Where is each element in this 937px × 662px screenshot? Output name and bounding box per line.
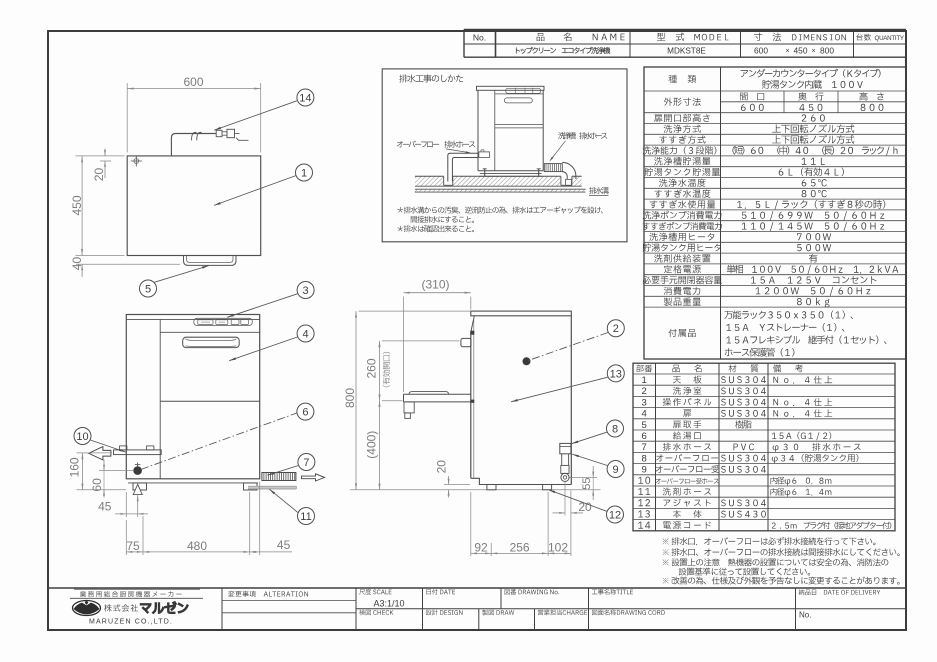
svg-text:20: 20 (92, 168, 106, 182)
svg-text:5: 5 (145, 283, 151, 295)
svg-text:102: 102 (548, 540, 568, 554)
svg-text:1: 1 (301, 167, 307, 179)
svg-text:256: 256 (510, 540, 530, 554)
tank dot (2) (523, 358, 530, 365)
svg-text:MDKST8E: MDKST8E (667, 46, 706, 55)
svg-text:9: 9 (642, 465, 647, 476)
svg-text:92: 92 (474, 540, 488, 554)
svg-text:3: 3 (303, 285, 309, 297)
detergent hose on floor (248, 486, 296, 489)
svg-text:14: 14 (299, 92, 311, 104)
maruzen company logo block (74, 588, 200, 590)
balloon 11 (269, 489, 298, 512)
dim 260 / (400) (382, 340, 460, 342)
svg-text:5: 5 (642, 420, 647, 431)
svg-text:10: 10 (76, 431, 88, 443)
balloon 7 (268, 466, 298, 476)
svg-text:2: 2 (642, 386, 647, 397)
svg-text:2: 2 (613, 323, 619, 335)
bottom dims 92 256 102 (470, 492, 472, 556)
svg-text:×: × (785, 48, 789, 55)
dim 55 (570, 476, 598, 478)
dim 45 left (125, 492, 127, 517)
door handle (plan) (184, 256, 237, 266)
svg-text:A3:1/10: A3:1/10 (373, 599, 404, 609)
dim 40 (plan) (76, 263, 180, 265)
dim (310) (403, 297, 405, 393)
balloon 14 (214, 101, 297, 130)
svg-text:450: 450 (794, 46, 808, 56)
svg-text:×: × (811, 48, 815, 55)
svg-text:260: 260 (365, 358, 379, 378)
balloon 9 (572, 454, 607, 465)
svg-text:20: 20 (578, 500, 592, 514)
door handle (side, closed) (461, 338, 471, 346)
svg-text:3: 3 (642, 397, 647, 408)
svg-text:800: 800 (343, 388, 357, 408)
balloon 1 (214, 176, 296, 206)
dim 600 (126, 83, 128, 153)
svg-text:7: 7 (303, 457, 309, 469)
overflow pipe (8) (560, 443, 571, 453)
svg-text:45: 45 (277, 538, 291, 552)
dim 60 (99, 470, 133, 472)
svg-text:600: 600 (754, 46, 768, 56)
parts list table (633, 363, 895, 531)
floor slab hatched (415, 176, 582, 186)
plan view of machine (top) (127, 156, 261, 256)
balloon 4 (229, 337, 297, 361)
svg-text:12: 12 (609, 509, 621, 521)
svg-text:450: 450 (70, 195, 84, 215)
base & legs (128, 482, 258, 484)
dim 160 (77, 452, 113, 454)
power cord (plan) (171, 134, 216, 156)
control panel buttons (194, 318, 253, 325)
drain work instruction box (382, 69, 627, 242)
labels in detail box (397, 141, 475, 148)
svg-text:11: 11 (300, 511, 311, 523)
svg-text:1: 1 (642, 375, 647, 386)
svg-text:8: 8 (642, 453, 647, 464)
balloon 10 (90, 440, 126, 452)
overflow direction hollow arrow (89, 447, 111, 460)
svg-text:9: 9 (613, 464, 619, 476)
bottom title block (48, 587, 906, 589)
door handle (front) (183, 337, 240, 347)
balloon 13 (511, 377, 608, 402)
svg-text:45: 45 (98, 499, 112, 513)
svg-text:7: 7 (642, 442, 647, 453)
svg-text:75: 75 (126, 539, 140, 553)
drain direction hollow arrow (302, 474, 325, 481)
svg-text:40: 40 (70, 257, 84, 271)
balloon 6 (297, 403, 314, 420)
svg-text:QUANTITY: QUANTITY (875, 35, 904, 42)
top title table (464, 29, 906, 31)
svg-text:55: 55 (581, 477, 593, 489)
svg-text:MARUZEN CO.,LTD.: MARUZEN CO.,LTD. (89, 618, 173, 625)
balloon 3 (227, 294, 297, 318)
detergent inlet dot (137, 463, 139, 467)
overflow receiver bracket (114, 450, 162, 455)
balloon 2 (607, 320, 624, 337)
svg-text:20: 20 (434, 460, 448, 474)
washtank drain hose (corrugated) (544, 164, 562, 172)
side view of machine (471, 311, 572, 316)
svg-text:600: 600 (183, 75, 203, 89)
front view of machine (126, 315, 259, 479)
dim 20 left (legs) (444, 484, 470, 486)
svg-text:No.: No. (799, 611, 811, 620)
dim 800 (359, 310, 471, 312)
mini machine front (477, 86, 545, 90)
mini machine base (480, 172, 542, 174)
balloon 5 (154, 266, 209, 283)
hot water inlet mark (131, 160, 142, 162)
centre line to balloon 6 (141, 413, 297, 470)
open door (side) (404, 393, 471, 395)
svg-text:(310): (310) (421, 278, 449, 292)
spec table (644, 67, 906, 359)
overflow receiver (9) (561, 465, 569, 473)
svg-text:4: 4 (303, 328, 309, 340)
adjuster foot symbol (133, 484, 142, 494)
overflow drain pipe (448, 153, 478, 181)
svg-text:13: 13 (610, 368, 622, 380)
balloon 8 (572, 432, 607, 444)
svg-text:4: 4 (642, 409, 647, 420)
dim 20 right (564, 482, 566, 516)
svg-text:160: 160 (68, 457, 82, 477)
svg-text:8: 8 (612, 423, 618, 435)
svg-text:6: 6 (642, 431, 647, 442)
notes (663, 538, 669, 544)
dim 450 (76, 155, 125, 157)
legs (side) (487, 485, 496, 490)
dim 20 (plan) (100, 160, 111, 162)
svg-text:(400): (400) (365, 431, 379, 459)
balloon 12 (548, 490, 606, 512)
svg-text:No.: No. (473, 32, 486, 42)
bottom dims 75 480 45 (125, 520, 127, 555)
svg-text:480: 480 (187, 539, 207, 553)
svg-text:6: 6 (302, 407, 308, 419)
svg-text:800: 800 (820, 46, 834, 56)
drain hose (hatched) (262, 473, 296, 481)
svg-text:60: 60 (90, 478, 104, 492)
